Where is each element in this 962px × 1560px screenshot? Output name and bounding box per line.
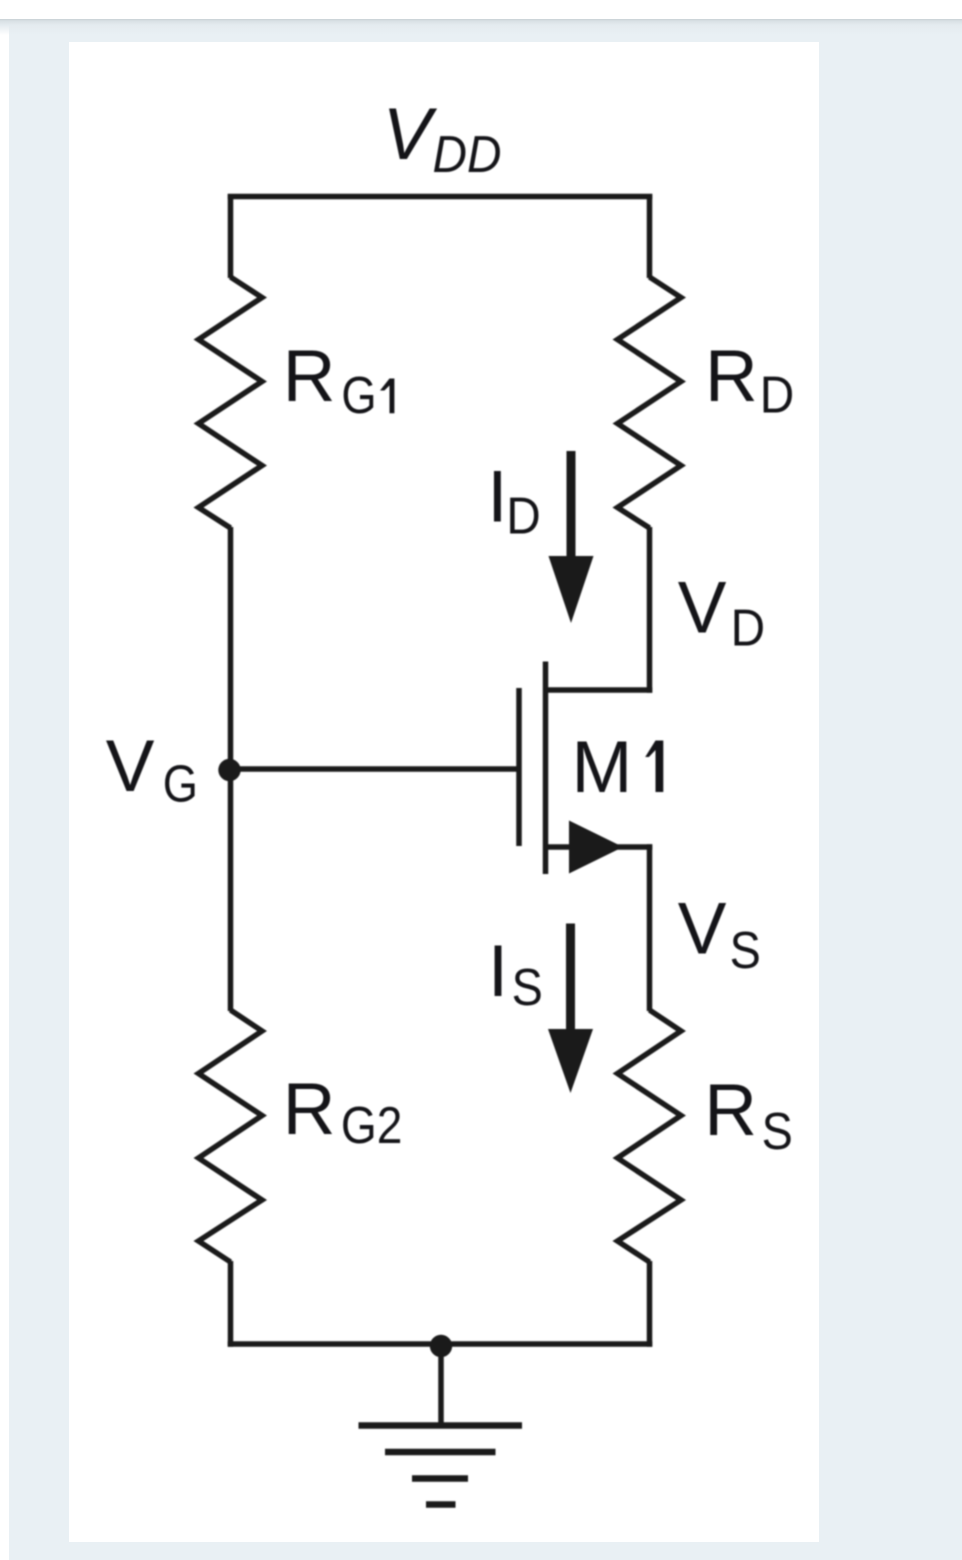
- svg-text:S: S: [730, 922, 761, 980]
- svg-text:R: R: [283, 336, 336, 417]
- transistor M1 gate bar: [516, 688, 522, 846]
- label RG2: [283, 1069, 403, 1155]
- label VS: [678, 889, 761, 980]
- resistor R_G2: [199, 1010, 263, 1262]
- svg-text:M: M: [572, 727, 633, 808]
- resistor R_S: [618, 1010, 682, 1262]
- wire drain horizontal: [546, 687, 653, 693]
- node ground junction dot: [430, 1335, 452, 1357]
- ground bar 3: [412, 1475, 468, 1482]
- transistor M1 channel bar: [543, 662, 549, 875]
- svg-text:V: V: [383, 94, 438, 175]
- wire gate (VG to M1 gate): [230, 766, 520, 772]
- label RS: [704, 1070, 793, 1161]
- resistor R_G1: [199, 277, 263, 528]
- svg-text:R: R: [705, 336, 758, 417]
- label VD: [678, 568, 765, 658]
- label M1: [572, 727, 664, 808]
- wire left top (VDD to RG1): [228, 194, 234, 278]
- label ID: [487, 456, 541, 545]
- wire left bottom (RG2 to bottom rail): [228, 1261, 234, 1347]
- label VG: [106, 726, 198, 814]
- wire right top (VDD to RD): [647, 194, 653, 278]
- label RG1: [283, 336, 395, 425]
- svg-text:G: G: [341, 367, 376, 425]
- resistor R_D: [618, 277, 682, 528]
- wire right bottom (RS to bottom rail): [647, 1261, 653, 1347]
- svg-text:D: D: [506, 488, 541, 546]
- svg-text:R: R: [704, 1070, 757, 1151]
- label VDD: [383, 94, 502, 184]
- current arrow ID head: [549, 556, 594, 623]
- current arrow ID stem: [567, 451, 576, 566]
- current arrow IS stem: [566, 924, 575, 1040]
- wire bottom rail: [228, 1341, 653, 1347]
- ground bar 1: [359, 1422, 523, 1429]
- wire left middle (RG1 to node VG to RG2): [228, 527, 234, 1011]
- ground bar 2: [385, 1449, 496, 1456]
- label RD: [705, 336, 794, 425]
- svg-text:G2: G2: [341, 1097, 403, 1155]
- svg-text:V: V: [678, 889, 727, 970]
- svg-text:I: I: [488, 931, 508, 1012]
- svg-text:S: S: [512, 959, 543, 1017]
- ground stem: [438, 1344, 444, 1425]
- wire source horizontal: [546, 844, 653, 850]
- transistor M1 source arrow: [569, 821, 623, 874]
- svg-text:V: V: [678, 568, 727, 649]
- svg-text:G: G: [163, 756, 198, 814]
- svg-text:V: V: [106, 726, 155, 807]
- svg-text:R: R: [283, 1069, 336, 1150]
- node VG junction dot: [218, 759, 240, 781]
- svg-text:DD: DD: [433, 126, 502, 184]
- svg-text:I: I: [487, 456, 507, 537]
- wire right source vertical (source to RS): [647, 844, 653, 1011]
- svg-text:S: S: [762, 1103, 793, 1161]
- svg-text:D: D: [760, 367, 795, 425]
- label IS: [488, 931, 543, 1017]
- svg-text:D: D: [731, 600, 766, 658]
- wire right drain vertical (RD to drain): [647, 527, 653, 693]
- ground bar 4: [426, 1501, 456, 1508]
- current arrow IS head: [548, 1029, 593, 1093]
- wire top rail VDD: [228, 194, 653, 200]
